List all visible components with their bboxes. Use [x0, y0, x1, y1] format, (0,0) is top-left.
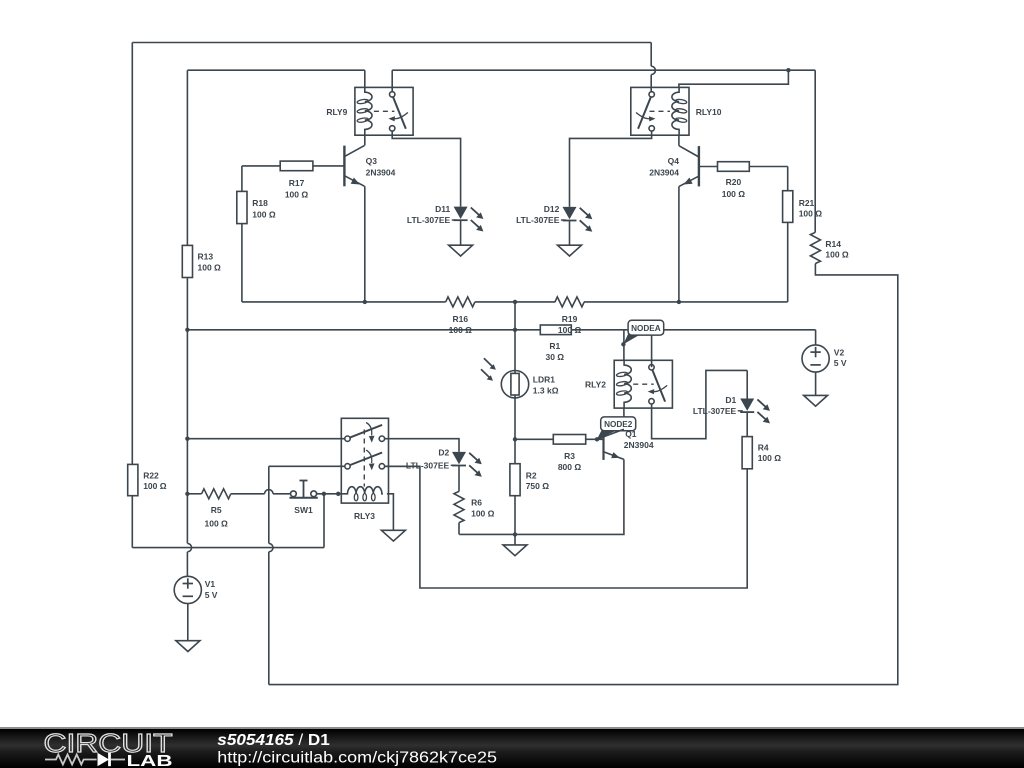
svg-text:R5: R5	[211, 505, 222, 515]
photoresistor LDR1	[481, 358, 559, 398]
junction NODEA anchor	[621, 342, 625, 346]
relay RLY9	[326, 87, 413, 135]
svg-text:http://circuitlab.com/ckj7862k: http://circuitlab.com/ckj7862k7ce25	[217, 749, 497, 766]
wire R17 to R18	[242, 166, 280, 192]
wire D2 cathode to R6	[458, 466, 460, 492]
wire RLY3 coil left leads	[317, 493, 347, 495]
svg-text:2N3904: 2N3904	[624, 440, 654, 450]
LED D2	[406, 447, 482, 476]
wire V2 to ground	[815, 372, 817, 395]
svg-text:100 Ω: 100 Ω	[205, 518, 229, 528]
junction R1-row/LDR rail	[513, 328, 517, 332]
svg-text:R4: R4	[758, 442, 769, 452]
svg-text:LAB: LAB	[127, 753, 173, 768]
wire D1 to R4	[746, 413, 748, 437]
wire into V1	[186, 552, 188, 577]
svg-text:R2: R2	[526, 470, 537, 480]
wire R1 row left	[187, 329, 540, 331]
svg-text:100 Ω: 100 Ω	[471, 508, 495, 518]
footer title	[200, 727, 760, 768]
wire RLY3 coil right to ground	[387, 494, 394, 531]
ground D12	[558, 245, 582, 256]
svg-text:R3: R3	[564, 451, 575, 461]
resistor R3	[553, 435, 585, 472]
junction coil-SW1 a	[322, 492, 326, 496]
svg-text:NODEA: NODEA	[631, 324, 661, 333]
svg-text:100 Ω: 100 Ω	[558, 325, 582, 335]
svg-text:R21: R21	[799, 198, 815, 208]
svg-text:R17: R17	[289, 178, 305, 188]
svg-text:RLY2: RLY2	[585, 379, 606, 389]
wire V2 drop	[815, 330, 817, 345]
svg-text:100 Ω: 100 Ω	[758, 453, 782, 463]
svg-text:750 Ω: 750 Ω	[526, 481, 550, 491]
wire row R16-R19	[475, 301, 555, 303]
junction top-right	[786, 68, 790, 72]
svg-text:5 V: 5 V	[205, 590, 218, 600]
resistor R13	[182, 245, 221, 277]
resistor R20	[718, 162, 750, 199]
svg-text:s5054165 / D1: s5054165 / D1	[217, 732, 330, 749]
relay RLY10	[631, 87, 722, 135]
wire RLY9 sw-bottom to D11	[392, 131, 460, 207]
wire R20 to R21	[749, 167, 787, 191]
junction Q4-emitter row	[677, 300, 681, 304]
resistor R14	[810, 232, 849, 263]
junction ground row	[513, 532, 517, 536]
footer bar	[0, 727, 1024, 768]
svg-text:100 Ω: 100 Ω	[825, 250, 849, 260]
wire LDR to R3 junction	[514, 398, 516, 464]
svg-text:RLY3: RLY3	[354, 511, 375, 521]
svg-text:RLY10: RLY10	[696, 107, 722, 117]
LED D11	[407, 204, 483, 231]
svg-text:V2: V2	[834, 347, 845, 357]
resistor R4	[742, 437, 781, 469]
wire R13 to R5	[187, 493, 201, 495]
ground RLY3	[381, 530, 405, 541]
svg-text:Q1: Q1	[625, 429, 637, 439]
wire R6 to ground row	[458, 523, 460, 535]
resistor R18	[237, 191, 276, 223]
wire RLY10 coil-top branch	[679, 70, 789, 87]
node NODE2	[597, 417, 636, 439]
relay RLY3	[341, 418, 388, 521]
wire R14 to bottom loop	[269, 264, 898, 685]
resistor R22	[128, 464, 167, 495]
wire mid vertical	[269, 466, 273, 684]
wire R2 ground stem	[514, 534, 516, 545]
svg-text:SW1: SW1	[294, 505, 313, 515]
ground V1	[176, 641, 200, 652]
wire RLY3 sw2-right	[384, 465, 420, 467]
svg-text:100 Ω: 100 Ω	[285, 190, 309, 200]
junction LDR/R3	[513, 437, 517, 441]
wire left border upper	[131, 43, 133, 465]
resistor R6	[454, 491, 495, 522]
wire RLY2 sw-bottom	[652, 370, 748, 438]
relay RLY2	[585, 360, 672, 408]
resistor R16	[446, 297, 475, 335]
svg-text:D1: D1	[725, 395, 736, 405]
wire top outer	[132, 42, 651, 44]
wire R3 left	[515, 438, 553, 440]
svg-text:R1: R1	[549, 341, 560, 351]
LED D12	[516, 204, 592, 232]
resistor R5	[202, 489, 231, 529]
svg-text:800 Ω: 800 Ω	[558, 462, 582, 472]
resistor R2	[510, 464, 549, 496]
svg-text:2N3904: 2N3904	[366, 167, 396, 177]
hop R13 rail over y547	[187, 543, 191, 551]
wire RLY2 coil-bottom to Q1 collector	[623, 408, 625, 431]
svg-text:R16: R16	[453, 314, 469, 324]
wire RLY10 switch-top drop with hop	[651, 43, 655, 92]
wire RLY3 sw2-left	[269, 465, 345, 467]
svg-text:1.3 kΩ: 1.3 kΩ	[533, 385, 559, 395]
wire RLY2 sw-top	[651, 330, 653, 367]
junction R13/R5 row	[185, 492, 189, 496]
svg-text:R6: R6	[471, 498, 482, 508]
voltage source V2	[802, 345, 847, 372]
svg-text:LTL-307EE: LTL-307EE	[407, 215, 451, 225]
wire LDR rail upper	[514, 302, 516, 371]
junction coil-SW1 b	[336, 492, 340, 496]
junction R13/RLY3 row	[185, 437, 189, 441]
svg-text:2N3904: 2N3904	[649, 167, 679, 177]
svg-text:LTL-307EE: LTL-307EE	[516, 215, 560, 225]
svg-text:RLY9: RLY9	[326, 107, 347, 117]
resistor R21	[783, 191, 823, 223]
ground R2	[503, 545, 527, 556]
CircuitLab logo	[0, 727, 520, 768]
switch SW1	[289, 481, 317, 515]
svg-text:NODE2: NODE2	[604, 420, 633, 429]
node NODEA	[623, 320, 663, 344]
wire Q3 emitter down	[364, 186, 366, 302]
svg-text:5 V: 5 V	[834, 358, 847, 368]
resistor R19	[555, 297, 584, 335]
svg-text:100 Ω: 100 Ω	[722, 189, 746, 199]
junction Q3-emitter row	[363, 300, 367, 304]
svg-text:LDR1: LDR1	[533, 374, 555, 384]
svg-text:100 Ω: 100 Ω	[198, 263, 222, 273]
transistor Q3	[313, 135, 396, 186]
transistor Q4	[649, 135, 717, 186]
wire R2 to ground row	[514, 496, 516, 535]
wire top rail into R14	[814, 70, 816, 232]
svg-text:R14: R14	[825, 239, 841, 249]
ground V2	[804, 395, 828, 406]
wire NODEA drop to coil	[623, 330, 625, 361]
svg-text:100 Ω: 100 Ω	[799, 209, 823, 219]
svg-text:D11: D11	[435, 204, 450, 214]
resistor R1	[540, 325, 571, 362]
svg-text:R19: R19	[562, 314, 578, 324]
wire RLY3 sw1-right to D2	[384, 439, 459, 452]
wire Q4 emitter down	[678, 186, 680, 302]
wire V1 to ground	[187, 604, 189, 641]
transistor Q1	[586, 429, 654, 460]
wire R5 to SW1 with hop	[231, 490, 291, 494]
wire left border lower	[131, 496, 133, 548]
svg-text:30 Ω: 30 Ω	[545, 352, 564, 362]
svg-text:R13: R13	[198, 251, 214, 261]
ground D11	[449, 245, 473, 256]
wire Q1 emitter loop	[459, 459, 624, 534]
wire D12 cathode	[569, 221, 571, 245]
wire R18 down to row	[242, 224, 446, 302]
svg-text:R20: R20	[726, 177, 742, 187]
svg-text:100 Ω: 100 Ω	[143, 481, 167, 491]
svg-text:100 Ω: 100 Ω	[449, 325, 473, 335]
svg-text:V1: V1	[205, 579, 216, 589]
wire bottom-left horizontal	[132, 547, 324, 549]
svg-text:100 Ω: 100 Ω	[252, 209, 276, 219]
svg-text:R22: R22	[143, 470, 159, 480]
junction R13/R1 row	[185, 328, 189, 332]
wire D11 cathode	[460, 221, 462, 245]
wire R4 bottom loop	[384, 466, 747, 588]
wire R13 rail lower	[186, 278, 188, 544]
wire D1 anode	[746, 370, 748, 398]
junction row/LDR rail	[513, 300, 517, 304]
svg-text:R18: R18	[252, 198, 268, 208]
resistor R17	[280, 161, 313, 199]
svg-text:LTL-307EE: LTL-307EE	[406, 460, 450, 470]
wire inner top left segment	[187, 70, 364, 87]
svg-text:D12: D12	[544, 204, 560, 214]
wire RLY3 sw1-left	[187, 438, 345, 440]
wire riser to SW1 net	[323, 494, 325, 548]
wire R1 row right	[571, 329, 815, 331]
LED D1	[693, 395, 770, 423]
svg-text:Q4: Q4	[668, 156, 680, 166]
wire R21 down to row	[584, 222, 788, 302]
wire R13 rail upper	[186, 70, 188, 245]
svg-text:D2: D2	[438, 447, 449, 457]
junction Q1 base	[595, 437, 599, 441]
wire inner top right segment	[392, 70, 815, 94]
svg-text:LTL-307EE: LTL-307EE	[693, 406, 737, 416]
wire RLY10 sw-bottom to D12	[570, 131, 652, 207]
svg-text:Q3: Q3	[366, 156, 378, 166]
voltage source V1	[174, 576, 218, 603]
